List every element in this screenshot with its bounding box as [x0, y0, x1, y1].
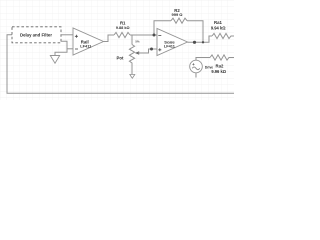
op-amp U1 "Rail LF411" (with + / - pin marks and labels)	[73, 28, 104, 55]
op-amp U2 "Scale LF411"	[157, 29, 188, 56]
node dot: feedback junction at U2 - input	[153, 34, 156, 37]
wire: stub down to potentiometer top	[131, 35, 133, 45]
svg-text:LF411: LF411	[80, 43, 92, 48]
wire: U1 output up to R1	[104, 35, 115, 42]
wire: pot bottom lead	[131, 65, 133, 75]
resistor Ra2 9.96 kOhm (to right edge)	[210, 55, 234, 60]
resistor R2 999 Ohm	[171, 18, 187, 23]
wire: box output to op-amp U1 + input	[61, 34, 73, 36]
resistor Ra1 9.94 kOhm (to right edge)	[212, 33, 234, 38]
svg-text:Ra2: Ra2	[216, 63, 224, 68]
voltage source Drive (sine)	[190, 60, 203, 73]
wiper arrow and wire to U2 + input	[135, 51, 139, 54]
svg-text:9.96 kΩ: 9.96 kΩ	[211, 69, 226, 74]
ground symbol (open arrow) at U1 - input	[50, 56, 59, 64]
node dot at U2 + input	[150, 48, 153, 51]
svg-text:9.94 kΩ: 9.94 kΩ	[211, 26, 226, 31]
svg-text:9.88 kΩ: 9.88 kΩ	[116, 26, 130, 30]
svg-text:LF411: LF411	[164, 43, 176, 48]
wire: Drive bottom stub	[195, 73, 197, 78]
wire: U2 output to the right	[188, 36, 213, 42]
block: Delay and Filter (dashed box)	[12, 27, 61, 43]
node dot: probe on U2 output	[193, 41, 196, 44]
resistor R1 9.88 kOhm	[114, 32, 130, 37]
ground symbol (small) below pot	[130, 75, 135, 79]
svg-text:R1: R1	[120, 21, 126, 26]
wire: R2 right lead down to U2 output node	[187, 21, 203, 43]
wire: ground net to op-amp U1 - input	[67, 48, 73, 50]
wire: box lower terminal down to ground net	[55, 41, 67, 55]
wire: Drive top lead to Ra2	[196, 58, 210, 61]
svg-text:999 Ω: 999 Ω	[172, 12, 184, 17]
svg-text:5%: 5%	[135, 40, 140, 44]
wire: feedback from U2 - input up to R2	[154, 21, 171, 35]
svg-text:Ra1: Ra1	[214, 20, 222, 25]
svg-text:+: +	[192, 62, 195, 67]
wire: bottom rail from left box input around bottom of schematic	[7, 35, 234, 93]
potentiometer Pot (vertical)	[129, 45, 134, 65]
svg-text:Delay and Filter: Delay and Filter	[20, 32, 52, 37]
node dot: junction of R2 lead with output wire	[202, 41, 204, 43]
svg-text:Pot: Pot	[117, 55, 124, 60]
wire: R1 to op-amp U2 - input	[130, 34, 157, 36]
